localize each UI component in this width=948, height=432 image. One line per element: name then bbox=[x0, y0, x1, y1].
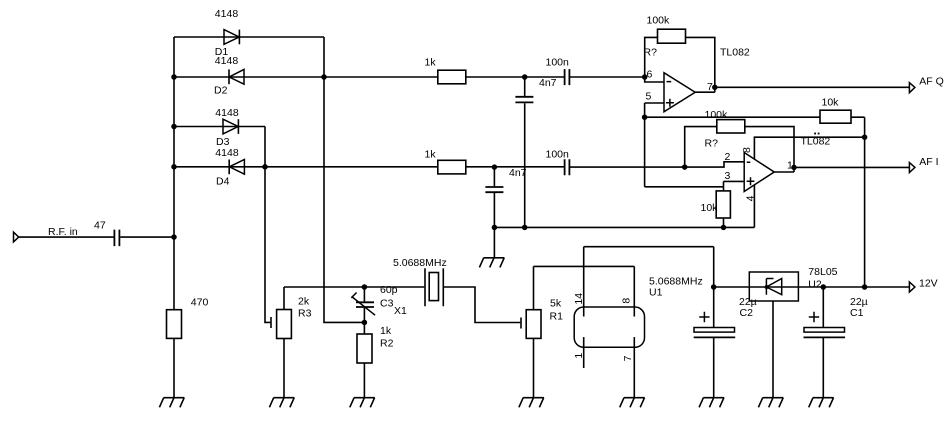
node: U1B output junction bbox=[791, 165, 797, 171]
svg-text:D4: D4 bbox=[216, 176, 230, 188]
node: R.F. input junction bbox=[171, 234, 177, 240]
wire: right diode rail down to C3 bottom bbox=[324, 37, 364, 322]
wire: U1 pin8 stub bbox=[633, 266, 635, 316]
diode D1 bbox=[224, 30, 239, 45]
resistor R1 5k trimmer bbox=[521, 310, 541, 339]
wire: op-amp U1B pin8 supply bbox=[754, 137, 864, 159]
svg-text:AF Q: AF Q bbox=[919, 76, 944, 88]
label 1k (second) bbox=[425, 148, 437, 160]
label TL082 (U1A) bbox=[720, 47, 750, 59]
wire: pin5 rail down to pin3 row bbox=[644, 103, 646, 187]
label pin 8 U1B (rotated) bbox=[741, 147, 753, 153]
svg-text:100k: 100k bbox=[705, 109, 729, 121]
ground (R3) bbox=[269, 398, 294, 408]
svg-text:4148: 4148 bbox=[215, 8, 239, 20]
label pin 14 (rotated) bbox=[573, 293, 585, 305]
svg-text:1k: 1k bbox=[380, 325, 392, 337]
label pin 7 bbox=[707, 81, 713, 93]
svg-text:4148: 4148 bbox=[215, 55, 239, 67]
resistor 100k (U1B feedback) bbox=[717, 120, 745, 133]
diode D2 bbox=[229, 69, 244, 84]
op-amp U1A TL082 bbox=[664, 73, 695, 112]
label R.F. in bbox=[48, 226, 78, 238]
wire: R1 top to U1 pin8 bbox=[534, 266, 635, 309]
wire: R3 top to crystal bbox=[284, 287, 424, 310]
svg-text:TL082: TL082 bbox=[720, 47, 750, 59]
ground (U1 pin7) bbox=[620, 398, 645, 408]
svg-text:AF I: AF I bbox=[919, 156, 938, 168]
svg-text:X1: X1 bbox=[394, 305, 407, 317]
svg-text:1: 1 bbox=[573, 353, 585, 359]
label 100n (second) bbox=[546, 148, 570, 160]
node: 4n7 first bottom junction bbox=[522, 225, 528, 231]
capacitor C1 22u electrolytic bbox=[804, 312, 846, 338]
wire: D3 row bbox=[174, 126, 265, 128]
IC U1 body bbox=[574, 307, 644, 347]
wire: op-amp U1B pin4 bbox=[753, 185, 755, 228]
wire: op-amp U1B non-inverting row bbox=[645, 181, 745, 186]
label 4n7 (first) bbox=[539, 77, 557, 89]
ground (C2) bbox=[699, 398, 724, 408]
svg-text:R3: R3 bbox=[298, 308, 312, 320]
label pin 1 bbox=[787, 160, 793, 172]
svg-text:R?: R? bbox=[644, 47, 658, 59]
label 22u C2 bbox=[739, 296, 757, 308]
wire: U2 ground pin bbox=[772, 301, 774, 398]
svg-text:10k: 10k bbox=[701, 202, 719, 214]
svg-text:R2: R2 bbox=[380, 338, 394, 350]
wire: D2 / first channel row bbox=[174, 76, 645, 78]
port AF I bbox=[909, 163, 915, 173]
node: C1 junction bbox=[821, 284, 827, 290]
svg-text:D2: D2 bbox=[214, 85, 228, 97]
wire: 10k bias row bbox=[645, 116, 865, 118]
ground (filter bus) bbox=[479, 258, 504, 268]
wire: D4 / second channel row bbox=[174, 166, 685, 168]
svg-text:78L05: 78L05 bbox=[808, 266, 837, 278]
svg-text:R?: R? bbox=[705, 138, 719, 150]
label 10k (bias) bbox=[822, 97, 840, 109]
wire: op-amp U1A non-inverting input bbox=[645, 102, 664, 104]
resistor 100k (U1A feedback) bbox=[658, 29, 686, 43]
wire: C2 bottom to ground bbox=[713, 337, 715, 397]
label 4148 (D2) bbox=[215, 55, 239, 67]
resistor 1k (first channel) bbox=[438, 70, 466, 84]
svg-text:5.0688MHz: 5.0688MHz bbox=[393, 257, 447, 269]
label R3 bbox=[298, 308, 312, 320]
label R? (U1B) bbox=[705, 138, 719, 150]
label 470 bbox=[191, 296, 209, 308]
wire: 10k R lead to bus bbox=[723, 187, 725, 228]
resistor 10k (bias top) bbox=[820, 110, 851, 123]
svg-text:C1: C1 bbox=[850, 307, 864, 319]
node: D4 left junction bbox=[171, 164, 177, 170]
label 1k (R2) bbox=[380, 325, 392, 337]
capacitor 100n (first) bbox=[565, 69, 570, 85]
node: 10k bus junction bbox=[721, 225, 727, 231]
label U2 bbox=[808, 279, 822, 291]
label D1 bbox=[215, 46, 229, 58]
resistor 10k (U1B non-inv) bbox=[716, 191, 730, 218]
node: D3 left junction bbox=[171, 124, 177, 130]
svg-text:C2: C2 bbox=[740, 307, 754, 319]
wire: crystal to R1 wiper bbox=[444, 287, 520, 323]
label 100k (U1A) bbox=[647, 14, 671, 26]
capacitor 4n7 (second) bbox=[485, 187, 503, 192]
svg-text:5: 5 bbox=[646, 90, 652, 102]
diode D4 bbox=[229, 160, 244, 175]
svg-text:2: 2 bbox=[725, 151, 731, 163]
label 2k bbox=[298, 296, 310, 308]
port 12V bbox=[909, 282, 915, 292]
svg-text:1: 1 bbox=[787, 160, 793, 172]
label pin 8 U1 (rotated) bbox=[620, 298, 632, 304]
wire: D1 top row bbox=[174, 36, 324, 38]
ground (U2) bbox=[758, 398, 783, 408]
wire: supply rail right bbox=[864, 117, 866, 287]
node: U1A inverting input junction bbox=[642, 74, 648, 80]
node: 4n7 second top junction bbox=[492, 164, 498, 170]
label R? (U1A) bbox=[644, 47, 658, 59]
label pin 5 bbox=[646, 90, 652, 102]
label 78L05 bbox=[808, 266, 837, 278]
node: pin5 bias junction bbox=[642, 114, 648, 120]
label pin 4 U1B (rotated) bbox=[744, 195, 756, 201]
node: D2 right junction bbox=[321, 74, 327, 80]
label C1 bbox=[850, 307, 864, 319]
wire: C3/R2 rail bbox=[363, 287, 365, 398]
label 4n7 (second) bbox=[509, 167, 527, 179]
node: C3 top junction bbox=[362, 284, 368, 290]
wire: op-amp U1A inverting input jog bbox=[645, 77, 664, 82]
svg-text:12V: 12V bbox=[919, 278, 938, 290]
svg-text:2k: 2k bbox=[298, 296, 310, 308]
node: supply pin8 junction bbox=[862, 134, 868, 140]
wire: op-amp U1B feedback loop bbox=[685, 127, 794, 168]
label U1 bbox=[649, 287, 663, 299]
node: U1B inverting input junction bbox=[682, 164, 688, 170]
label pin 3 bbox=[725, 170, 731, 182]
label 47 bbox=[94, 219, 106, 231]
label 1k (first) bbox=[425, 57, 437, 69]
node: C3 bottom junction bbox=[362, 320, 368, 326]
wire: U1 pin14 stub bbox=[583, 247, 585, 317]
label 4148 (D3) bbox=[215, 107, 239, 119]
label C3 bbox=[380, 298, 394, 310]
svg-text:R.F. in: R.F. in bbox=[48, 226, 78, 238]
resistor 1k (second channel) bbox=[438, 160, 466, 174]
node: U1A output junction bbox=[712, 85, 718, 91]
wire: R.F. input row bbox=[19, 236, 174, 238]
label 4148 (D1) bbox=[215, 8, 239, 20]
svg-text:4148: 4148 bbox=[215, 147, 239, 159]
label pin 1 U1 (rotated) bbox=[573, 353, 585, 359]
wire: left rail bbox=[173, 37, 175, 398]
node: 4n7 first top junction bbox=[522, 74, 528, 80]
svg-text:8: 8 bbox=[741, 147, 753, 153]
op-amp U1B TL082 bbox=[744, 153, 774, 192]
svg-text:3: 3 bbox=[725, 170, 731, 182]
regulator U2 78L05 bbox=[749, 272, 798, 301]
label 4148 (D4) bbox=[215, 147, 239, 159]
label 100k (U1B) bbox=[705, 109, 729, 121]
crystal X1 5.0688MHz bbox=[425, 268, 443, 306]
ground (R1) bbox=[519, 398, 544, 408]
label 5k bbox=[550, 298, 562, 310]
capacitor C2 22u electrolytic bbox=[694, 312, 736, 338]
port AF Q bbox=[909, 83, 915, 93]
wire: U1 pin14 supply bbox=[584, 246, 714, 248]
capacitor 47 input bbox=[114, 230, 119, 247]
svg-text:7: 7 bbox=[622, 355, 634, 361]
label 5.0688MHz (U1) bbox=[649, 276, 703, 288]
ground (R2) bbox=[350, 398, 375, 408]
label C2 bbox=[740, 307, 754, 319]
wire: op-amp U1A feedback loop bbox=[645, 37, 715, 87]
svg-text:100n: 100n bbox=[546, 148, 570, 160]
label R1 bbox=[550, 311, 564, 323]
capacitor C3 60p trimmer bbox=[351, 293, 375, 316]
svg-text:R1: R1 bbox=[550, 311, 564, 323]
svg-text:100k: 100k bbox=[647, 14, 671, 26]
svg-text:U2: U2 bbox=[808, 279, 822, 291]
svg-text:4: 4 bbox=[744, 195, 756, 201]
svg-text:8: 8 bbox=[620, 298, 632, 304]
svg-text:4148: 4148 bbox=[215, 107, 239, 119]
svg-text:U1: U1 bbox=[649, 287, 663, 299]
svg-text:C3: C3 bbox=[380, 298, 394, 310]
svg-text:TL082: TL082 bbox=[801, 135, 831, 147]
label D4 bbox=[216, 176, 230, 188]
wire: AF I output bbox=[774, 167, 909, 172]
label pin 6 bbox=[647, 69, 653, 81]
ground (470) bbox=[159, 398, 184, 408]
svg-text:60p: 60p bbox=[380, 284, 398, 296]
svg-text:7: 7 bbox=[707, 81, 713, 93]
resistor 470 bbox=[167, 310, 182, 339]
wire: R3 bottom to ground bbox=[283, 339, 285, 398]
label D3 bbox=[216, 136, 230, 148]
svg-text:10k: 10k bbox=[822, 97, 840, 109]
label R2 bbox=[380, 338, 394, 350]
label TL082 (U1B) bbox=[801, 133, 831, 148]
wire: D3/D4 rail down to R3 wiper bbox=[265, 127, 270, 323]
diode D3 bbox=[223, 119, 238, 134]
port R.F. in bbox=[14, 232, 19, 242]
wire: 4n7 rail (second) and ground stub bbox=[493, 167, 495, 258]
label pin 7 U1 (rotated) bbox=[622, 355, 634, 361]
label 100n (first) bbox=[546, 57, 570, 69]
label D2 bbox=[214, 85, 228, 97]
svg-text:47: 47 bbox=[94, 219, 106, 231]
svg-text:14: 14 bbox=[573, 293, 585, 305]
wire: ground bus bbox=[494, 226, 754, 228]
wire: U1 pin7 to ground bbox=[633, 337, 635, 398]
label 12V bbox=[919, 278, 938, 290]
svg-text:D3: D3 bbox=[216, 136, 230, 148]
wire: AF Q output bbox=[695, 87, 909, 92]
svg-text:1k: 1k bbox=[425, 57, 437, 69]
label pin 2 bbox=[725, 151, 731, 163]
capacitor 4n7 (first) bbox=[515, 97, 533, 103]
svg-text:5k: 5k bbox=[550, 298, 562, 310]
node: D4 cathode junction bbox=[262, 164, 268, 170]
label AF Q bbox=[919, 76, 944, 88]
wire: 12V rail bbox=[714, 247, 910, 328]
node: supply 12V junction bbox=[862, 284, 868, 290]
label AF I bbox=[919, 156, 938, 168]
svg-text:4n7: 4n7 bbox=[509, 167, 527, 179]
ground (C1) bbox=[809, 398, 834, 408]
svg-text:470: 470 bbox=[191, 296, 209, 308]
wire: 4n7 rail (first) bbox=[524, 77, 526, 227]
label 10k (U1B non-inv) bbox=[701, 202, 719, 214]
label 60p bbox=[380, 284, 398, 296]
node: U1 supply junction bbox=[711, 284, 717, 290]
svg-text:1k: 1k bbox=[425, 148, 437, 160]
label X1 bbox=[394, 305, 407, 317]
wire: op-amp U1B inverting jog bbox=[685, 162, 745, 167]
wire: U1 pin1 stub bbox=[583, 337, 585, 368]
node: 4n7 second bottom junction bbox=[492, 225, 498, 231]
svg-text:6: 6 bbox=[647, 69, 653, 81]
label 5.0688MHz (crystal) bbox=[393, 257, 447, 269]
svg-text:4n7: 4n7 bbox=[539, 77, 557, 89]
label 22u C1 bbox=[850, 296, 868, 308]
svg-text:100n: 100n bbox=[546, 57, 570, 69]
resistor R3 2k trimmer bbox=[271, 310, 291, 339]
wire: C1 leads bbox=[822, 287, 824, 398]
node: D2 left junction bbox=[171, 74, 177, 80]
resistor R2 1k bbox=[357, 334, 372, 363]
capacitor 100n (second) bbox=[565, 159, 570, 175]
wire: R1 bottom to ground bbox=[533, 338, 535, 397]
